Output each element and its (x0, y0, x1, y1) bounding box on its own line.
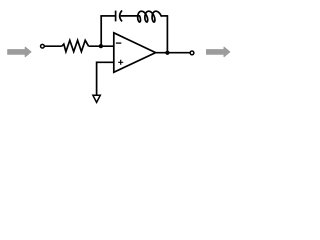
wire: feedback right vertical down to output (166, 15, 168, 53)
inductor L1 (138, 11, 162, 22)
wire: noninverting input down to ground (96, 61, 98, 95)
capacitor C1 straight plate (115, 11, 117, 22)
input terminal (41, 44, 45, 48)
ground (arrow symbol) (93, 95, 100, 102)
op-amp U1 (114, 33, 156, 73)
capacitor C1 curved plate (120, 10, 122, 21)
op-amp minus sign (116, 42, 121, 44)
wire: feedback left vertical (100, 16, 102, 46)
wire: resistor to op-amp inverting input (89, 45, 114, 47)
wire: capacitor to inductor (121, 15, 140, 17)
wire: op-amp output (155, 52, 190, 54)
wire: feedback top rail to capacitor (100, 15, 115, 17)
output terminal (190, 51, 194, 55)
wire: op-amp noninverting input (97, 61, 114, 63)
op-amp plus sign (118, 60, 123, 65)
wire: inductor to feedback right vertical (161, 15, 167, 17)
wire: input terminal to resistor (45, 45, 62, 47)
node: output junction dot (165, 51, 169, 55)
node: feedback junction dot (99, 44, 103, 48)
input flow arrow (gray, left) (8, 47, 31, 57)
resistor R1 (62, 40, 89, 51)
output flow arrow (gray, right) (207, 47, 230, 57)
